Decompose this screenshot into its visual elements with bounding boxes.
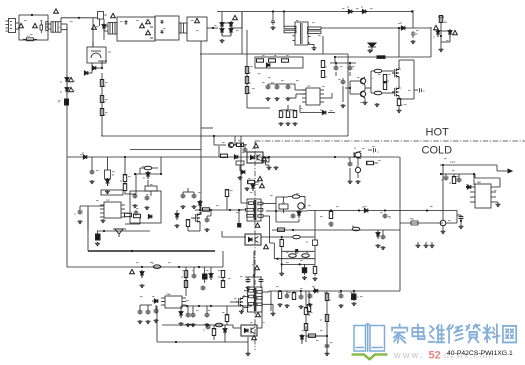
wire startup link: [125, 174, 136, 194]
svg-text:R: R: [181, 276, 183, 279]
resistor R6: [269, 59, 276, 62]
wire q3 drain: [392, 60, 399, 71]
ground c27: [459, 220, 464, 229]
ground r64: [313, 277, 318, 281]
junction stby b: [178, 266, 180, 268]
svg-text:C: C: [357, 296, 359, 299]
capacitor C11: [90, 157, 95, 184]
wire u1 bottom: [281, 105, 295, 112]
wire fb rung d: [281, 263, 315, 265]
isolation barrier dash line: [255, 140, 525, 142]
watermark glyph wang: [503, 326, 516, 343]
ground aux sec: [274, 166, 279, 170]
wire sense left: [305, 326, 307, 342]
transistor Q2 driver: [357, 88, 366, 98]
resistor R45: [449, 177, 456, 186]
wire sec drop a: [315, 230, 383, 235]
ground sense: [439, 48, 444, 52]
resistor R51: [221, 278, 224, 288]
capacitor C17: [192, 194, 197, 210]
svg-text:D: D: [60, 81, 62, 84]
diode D23: [245, 183, 256, 191]
resistor R56: [307, 291, 310, 316]
varistor RV1: [98, 12, 108, 20]
diode D13: [82, 152, 87, 159]
wire u1 left links: [268, 84, 306, 98]
svg-text:R: R: [249, 92, 251, 95]
capacitor C7: [275, 85, 280, 102]
wire drive branch: [177, 210, 211, 218]
resistor R10: [245, 87, 251, 96]
junction cold a: [442, 164, 444, 166]
resistor R20: [397, 99, 403, 108]
wire sense top: [438, 17, 444, 48]
resistor R61: [304, 315, 307, 331]
capacitor C24: [368, 148, 379, 154]
diode D10: [448, 29, 452, 42]
wire varistor legs: [99, 19, 104, 26]
svg-text:D: D: [143, 177, 145, 180]
wire standby primary feed: [253, 251, 255, 288]
transistor Q6 main mosfet: [191, 212, 200, 224]
junction stby c: [198, 266, 200, 268]
wire fb rung b: [282, 250, 315, 252]
resistor R54 oval: [215, 323, 223, 327]
wire PFC output rail: [321, 27, 431, 28]
optocoupler PC3: [241, 325, 257, 336]
svg-text:RY: RY: [108, 51, 112, 54]
op-amp U1 PFC controller: [302, 84, 324, 105]
box pwm aux: [130, 191, 161, 223]
capacitor C21: [381, 235, 386, 251]
resistor R48: [181, 271, 188, 280]
capacitor C42: [339, 291, 344, 308]
wire snubber links: [266, 210, 307, 222]
resistor R12: [321, 71, 327, 80]
watermark book icon: [352, 323, 388, 359]
svg-text:www.: www.: [393, 350, 425, 360]
junction u4 c: [210, 305, 212, 307]
diode D22: [240, 170, 245, 174]
diode D1: [92, 66, 103, 70]
svg-text:R: R: [112, 174, 114, 177]
svg-text:C: C: [416, 33, 418, 36]
resistor R44: [366, 161, 378, 164]
box line filter 4: [187, 17, 207, 41]
wire choke top link: [61, 17, 98, 22]
ground c3: [411, 40, 416, 44]
svg-text:C: C: [74, 213, 76, 216]
capacitor C37: [205, 306, 210, 327]
resistor R58: [320, 315, 329, 323]
capacitor C35: [186, 306, 191, 327]
svg-text:R: R: [120, 180, 122, 183]
capacitor C8: [286, 85, 291, 102]
capacitor C3: [411, 31, 418, 38]
diode D26: [152, 299, 158, 303]
ground fb a: [279, 272, 284, 276]
resistor R53: [212, 325, 215, 340]
resistor R42: [247, 180, 259, 183]
junction barrier a: [213, 135, 215, 137]
watermark glyph jia: [392, 324, 407, 343]
wire q10 drain: [243, 296, 245, 298]
svg-text:R: R: [325, 76, 327, 79]
warning triangle t15: [260, 183, 265, 187]
resistor R33: [329, 212, 334, 227]
svg-text:Q: Q: [354, 147, 356, 150]
label COLD: [422, 145, 453, 157]
ground t1: [312, 47, 317, 51]
resistor R64: [313, 264, 316, 276]
diode D2: [84, 68, 92, 75]
capacitor C1: [58, 99, 69, 105]
wire opto bias drop: [218, 146, 220, 157]
wire cold right return: [399, 157, 401, 291]
warning triangle t8: [434, 25, 439, 29]
warning triangle t7: [69, 87, 74, 91]
ground c2: [271, 26, 276, 30]
svg-text:U1: U1: [307, 84, 311, 88]
capacitor C22: [296, 250, 298, 254]
capacitor C39: [285, 291, 290, 308]
transistor Q7 clamp: [298, 203, 305, 209]
wire PFC cap bank bottom: [335, 56, 431, 58]
junction fb a: [281, 236, 283, 238]
junction u4 b: [198, 305, 200, 307]
wire gate line: [195, 209, 242, 211]
capacitor C10: [414, 88, 425, 93]
watermark glyph zi: [466, 324, 480, 342]
wire u4 left net: [140, 305, 156, 310]
resistor R43: [262, 157, 269, 165]
resistor R55: [278, 292, 283, 308]
capacitor C26: [441, 176, 448, 183]
wire c9: [342, 78, 344, 102]
svg-text:ZR: ZR: [104, 14, 108, 17]
resistor R7: [282, 59, 289, 62]
capacitor C32: [138, 310, 143, 325]
svg-text:D: D: [347, 6, 349, 9]
capacitor C27: [457, 215, 463, 222]
wire standby secondary rail: [269, 290, 400, 292]
diode D21: [376, 231, 381, 248]
svg-text:D: D: [361, 6, 363, 9]
ground t2 aux: [238, 210, 241, 227]
wire opto1 link: [222, 231, 315, 237]
junction gnd rail: [131, 250, 133, 252]
capacitor C45 el: [302, 264, 306, 275]
resistor R49: [184, 278, 187, 288]
resistor R59: [306, 334, 327, 337]
junction pfc a: [272, 10, 274, 12]
warning triangle t3: [140, 23, 145, 27]
wire u2 right link: [125, 218, 140, 224]
transistor Q3 PFC mosfet: [392, 67, 401, 79]
resistor R37 oval: [293, 235, 301, 239]
resistor R41: [236, 161, 244, 171]
wire q4 source: [398, 97, 400, 100]
capacitor C14: [74, 210, 83, 225]
wire aux rail: [130, 149, 201, 151]
pin header P1: [416, 242, 435, 248]
warning triangle t2: [54, 9, 59, 13]
capacitor C18: [205, 218, 210, 233]
junction sec d: [292, 229, 294, 231]
warning triangle t6: [69, 77, 74, 81]
svg-text:R: R: [329, 299, 331, 302]
ground q10: [239, 308, 244, 314]
capacitor C34: [154, 309, 159, 324]
wire output inner line: [440, 173, 475, 175]
wire AC live top rail: [217, 11, 413, 13]
component ref node: [457, 178, 462, 183]
ground r41: [238, 176, 243, 180]
capacitor C25: [348, 157, 353, 184]
junction sec a: [330, 209, 332, 211]
capacitor C16: [181, 194, 186, 210]
svg-text:HOT: HOT: [426, 127, 450, 139]
ground q4: [397, 106, 402, 113]
resistor R52: [225, 306, 228, 325]
op-amp U3 comparator: [470, 180, 496, 208]
component CT node: [134, 210, 139, 216]
svg-text:R: R: [387, 80, 389, 83]
wire top rail drop: [412, 10, 414, 28]
svg-text:R: R: [249, 72, 251, 75]
resistor R22: [120, 175, 127, 184]
wire output box top: [440, 164, 497, 166]
capacitor C43 el: [352, 291, 360, 306]
resistor R16 gate a: [371, 69, 392, 73]
transistor Q9 reg: [354, 147, 361, 159]
junction sec e: [334, 156, 336, 158]
junction pfc b: [283, 10, 285, 12]
capacitor CY1: [161, 20, 164, 24]
capacitor CY2: [161, 30, 164, 34]
junction cold b: [440, 173, 475, 175]
op-amp U4 standby controller: [161, 292, 186, 308]
bridge rectifier BD1: [220, 21, 233, 36]
capacitor C13: [145, 196, 150, 211]
resistor R23: [123, 182, 126, 191]
ground u2: [101, 219, 106, 223]
resistor R19: [383, 82, 386, 90]
wire aux right leg: [160, 157, 162, 174]
wire cold mid corner: [456, 211, 458, 216]
wire connector to filter: [16, 23, 20, 29]
ground c45: [302, 276, 307, 280]
wire VCC rail left: [67, 156, 400, 158]
capacitor C23: [240, 144, 248, 153]
wire bridge feed: [221, 12, 223, 23]
junction s2 d: [340, 290, 342, 292]
wire cap bank vertical b: [430, 28, 432, 57]
watermark glyph wei: [429, 325, 445, 343]
junction s2 c: [313, 290, 315, 292]
resistor R21: [105, 157, 115, 182]
svg-text:R: R: [449, 182, 451, 185]
svg-text:R: R: [104, 101, 106, 104]
svg-text:D: D: [60, 91, 62, 94]
ground bridge: [220, 39, 225, 43]
svg-text:R: R: [320, 319, 322, 322]
warning triangle t2c: [111, 13, 116, 17]
wire u1 out right: [324, 93, 332, 98]
wire barrier crossing b: [234, 136, 236, 146]
box divider network: [255, 57, 303, 68]
junction cap bank: [334, 27, 400, 58]
wire u3 loop: [475, 174, 500, 187]
capacitor CX2: [125, 20, 128, 25]
wire pfc box right vertical: [347, 54, 349, 136]
wire standby fb line: [162, 324, 233, 326]
watermark glyph xiu: [447, 325, 463, 343]
warning triangle t19: [256, 312, 261, 316]
resistor R47 oval: [152, 262, 161, 269]
resistor R35 oval: [352, 225, 360, 231]
warning triangle t1b: [33, 23, 38, 27]
svg-text:D: D: [362, 206, 364, 209]
resistor R14: [286, 111, 291, 127]
wire x1 right: [446, 215, 457, 223]
wire secondary second rail: [272, 229, 400, 231]
wire t3 top bar: [245, 276, 262, 278]
optocoupler PC1: [245, 234, 261, 245]
op-amp U2 PWM controller: [100, 198, 125, 218]
box line filter 2: [117, 17, 155, 41]
resistor R1: [100, 80, 106, 89]
component L2: [292, 291, 295, 300]
junction s2 b: [300, 290, 302, 292]
ground drivers: [375, 103, 380, 107]
capacitor C30: [201, 286, 206, 291]
resistor R34: [278, 228, 285, 231]
svg-text:C: C: [58, 101, 60, 104]
capacitor C31: [246, 277, 251, 290]
resistor R15: [293, 111, 298, 127]
wire primary gnd stub: [87, 209, 89, 251]
choke LF1: [51, 22, 61, 33]
resistor R9: [245, 77, 251, 86]
wire output arrow: [450, 160, 512, 173]
transistor Q1 driver: [357, 77, 366, 88]
watermark glyph liao: [483, 324, 499, 343]
svg-text:U2: U2: [106, 198, 110, 202]
wire barrier jog: [214, 144, 226, 146]
wire opto drive line: [222, 236, 246, 238]
ground t3 sec: [271, 312, 276, 316]
svg-text:C: C: [377, 151, 379, 154]
label HOT: [426, 127, 450, 139]
svg-text:40-P42CS-PWI1XG.1: 40-P42CS-PWI1XG.1: [447, 350, 513, 357]
resistor R28: [203, 208, 210, 211]
diode D5: [347, 6, 354, 14]
resistor R63 oval: [302, 254, 310, 258]
wire pwm node: [299, 105, 301, 113]
thermistor NTC2: [146, 30, 153, 38]
diode D30: [300, 334, 304, 344]
ground r43: [266, 156, 272, 171]
resistor R3: [100, 109, 106, 118]
warning triangle t14: [258, 176, 263, 180]
diode D12: [300, 109, 335, 115]
junction sense a: [326, 335, 328, 337]
choke LF2: [108, 23, 117, 35]
transistor Q10 standby fet: [230, 296, 243, 308]
svg-text:R: R: [218, 276, 220, 279]
resistor R32: [288, 195, 305, 203]
watermark url 52: [429, 350, 441, 362]
capacitor C4: [334, 62, 339, 71]
junction vcc a: [124, 156, 126, 158]
capacitor C5: [348, 62, 353, 71]
diode D27: [179, 306, 184, 326]
fuse F1: [23, 35, 37, 41]
watermark glyph dian: [412, 324, 424, 339]
capacitor C6: [266, 85, 271, 102]
wire pfc box inner vertical: [322, 36, 324, 54]
relay RL1: [87, 47, 112, 63]
capacitor C29 el: [203, 267, 208, 283]
resistor R50: [218, 271, 225, 280]
warning triangle t11: [264, 244, 269, 248]
resistor R26: [134, 214, 141, 217]
wire fb rung c: [274, 258, 314, 260]
wire bridge neg vertical: [241, 12, 243, 54]
capacitor C2: [271, 19, 275, 25]
capacitor C19: [291, 214, 296, 219]
wire u2 fb: [87, 209, 89, 231]
warning triangle t5: [233, 15, 238, 19]
wire cap row: [183, 188, 194, 194]
wire cap bank vertical a: [398, 28, 400, 57]
resistor R46: [411, 218, 418, 225]
wire pwm vcc line: [97, 230, 150, 232]
junction u2 a: [103, 230, 105, 232]
capacitor C9: [341, 80, 346, 109]
svg-text:Z: Z: [433, 36, 435, 39]
junction circle X1: [440, 220, 446, 226]
diode D6: [361, 6, 368, 14]
transformer T2 main: [241, 199, 276, 221]
wire cluster link: [330, 63, 356, 76]
wire vcc drop: [124, 157, 126, 176]
wire q6 source: [188, 224, 200, 231]
svg-text:C: C: [441, 179, 443, 182]
diode D14: [105, 178, 110, 194]
wire t2 left pins: [238, 209, 246, 211]
capacitor C40: [299, 291, 304, 309]
transformer T1 PFC choke: [284, 22, 321, 45]
wire snub drop: [314, 246, 316, 265]
warning triangle t1: [19, 23, 24, 27]
watermark url tail: [444, 350, 494, 360]
wire box stub: [201, 127, 213, 129]
resistor R31: [279, 197, 288, 213]
wire t1 out: [284, 12, 314, 47]
svg-text:C: C: [203, 329, 205, 332]
svg-text:R: R: [306, 241, 308, 244]
wire PFC sense corner: [247, 107, 270, 109]
warning triangle t13: [262, 156, 267, 160]
resistor R13: [279, 111, 284, 127]
ground u3: [496, 202, 501, 207]
thermistor NTC1: [146, 19, 153, 27]
diode D8 clamp: [368, 43, 376, 52]
wire sense bottom line: [306, 335, 327, 337]
wire choke2 in: [104, 24, 108, 31]
